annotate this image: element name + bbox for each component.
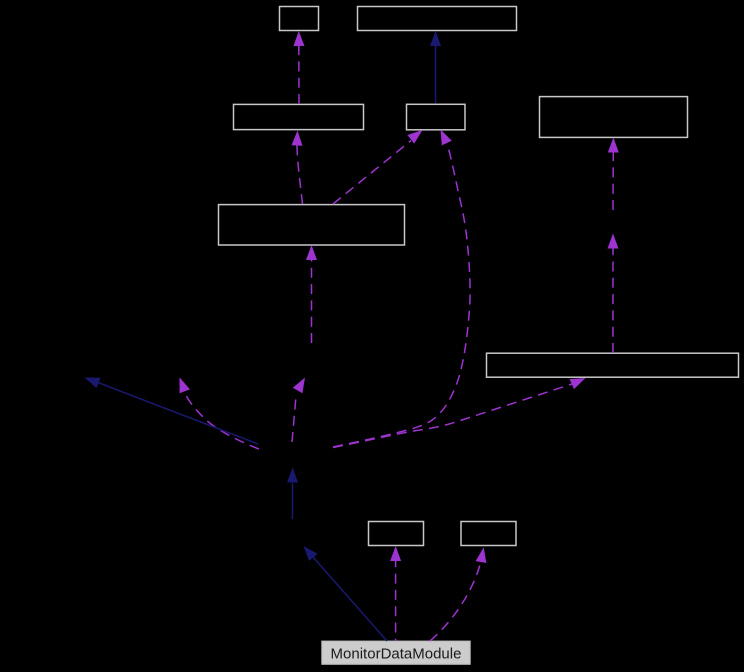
- node T2 (top-center wide class box): [358, 7, 517, 31]
- edge E7a (dashed usage arrow hub -> invisible label, slanted head): [292, 378, 305, 443]
- edge E_T1 (dashed usage arrow R2a -> T1): [294, 31, 305, 104]
- svg-text:MonitorDataModule: MonitorDataModule: [331, 645, 462, 662]
- node R2c (second-row right tall class box): [540, 97, 688, 138]
- node R2a (second-row left class box): [234, 104, 364, 129]
- edge E9 (solid inheritance arrow hub -> far upper-left): [85, 378, 259, 445]
- edge E2 (dashed usage arrow R3 -> R2b, diagonal): [333, 130, 423, 204]
- node T1 (top-left small class box): [280, 7, 319, 31]
- node M (middle-right wide class box): [487, 353, 739, 377]
- edge E7b (dashed usage arrow invisible label -> R3, vertical): [306, 245, 317, 343]
- edge E_T2 (solid inheritance arrow R2b -> T2): [430, 31, 441, 103]
- edge E10 (solid inheritance arrow nodeB -> hub, vertical): [287, 468, 298, 520]
- edge E13 (dashed usage arrow MonitorDataModule -> B2, curved): [430, 547, 486, 641]
- edge E1 (dashed usage arrow R3 -> R2a, slight curve): [292, 131, 303, 205]
- node MonitorDataModule (main node, filled): [322, 641, 470, 664]
- edge E12 (dashed usage arrow MonitorDataModule -> B1, vertical): [390, 546, 401, 641]
- edge E5 (dashed usage arrow M -> invisible label, vertical): [608, 234, 619, 354]
- edge E11 (solid inheritance arrow MonitorDataModule -> nodeB, diagonal): [304, 546, 388, 641]
- node R2b (second-row small class box): [407, 104, 466, 130]
- edge E8 (dashed usage arrow hub -> invisible label upper-left, curved): [180, 377, 260, 449]
- edge E3 (dashed usage arrow from hub bundle curving up to R2b right side): [333, 130, 470, 448]
- edge E4 (dashed usage arrow hub -> M, shallow diagonal): [333, 378, 586, 448]
- node R3 (third-row wide tall class box): [219, 205, 405, 245]
- node B2 (lower small class box right): [461, 522, 516, 546]
- edge E6 (dashed usage arrow invisible label -> R2c, vertical): [608, 138, 619, 211]
- node B1 (lower small class box left): [369, 522, 424, 546]
